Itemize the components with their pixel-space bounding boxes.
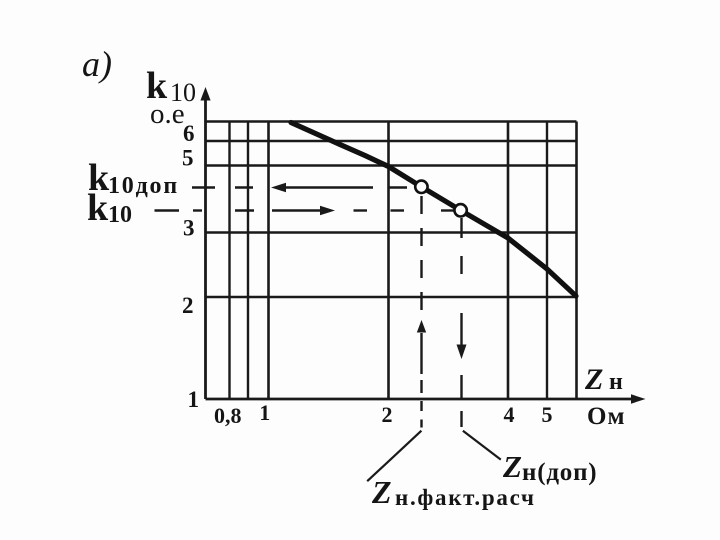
dashed horizontal k10 level y=210.5 [155, 209, 458, 211]
svg-text:о.е: о.е [150, 98, 185, 130]
svg-text:а): а) [82, 44, 112, 84]
curve k10(Zн) [291, 123, 576, 297]
callout leader to Zн(доп) [463, 431, 501, 460]
svg-text:10: 10 [108, 202, 132, 228]
svg-text:3: 3 [183, 216, 195, 241]
svg-text:2: 2 [382, 402, 393, 427]
gridline vertical 1 [267, 122, 270, 400]
svg-text:Ом: Ом [587, 403, 625, 430]
marker circle on curve at k10 [454, 204, 466, 216]
svg-text:1: 1 [259, 400, 270, 425]
svg-text:н(доп): н(доп) [522, 459, 597, 486]
gridline vertical 4 [507, 122, 510, 400]
gridline vertical 0.8 [228, 122, 230, 400]
svg-text:Z: Z [502, 449, 522, 484]
marker circle on curve at k10доп [415, 181, 427, 193]
svg-text:5: 5 [542, 402, 553, 427]
gridline vertical 2 [387, 122, 390, 400]
gridline vertical right border [575, 122, 578, 400]
svg-text:k: k [87, 187, 109, 229]
x-axis arrowhead [631, 394, 646, 403]
svg-text:н: н [609, 369, 623, 395]
svg-text:2: 2 [182, 293, 194, 318]
svg-text:10доп: 10доп [108, 173, 179, 199]
left arrowhead on k10доп line [271, 183, 286, 193]
down arrowhead on Zн(доп) line [457, 345, 467, 360]
svg-text:Z: Z [584, 363, 603, 396]
svg-text:1: 1 [188, 387, 200, 412]
x-axis [206, 398, 635, 401]
svg-text:0,8: 0,8 [214, 403, 242, 428]
svg-text:4: 4 [504, 402, 515, 427]
gridline horizontal 3 [206, 231, 577, 233]
gridline horizontal 6 [206, 140, 577, 142]
y-axis [204, 99, 207, 399]
dashed vertical Zн.факт.расч x=421.5 [420, 196, 422, 428]
callout leader to Zн.факт.расч [367, 431, 421, 482]
dashed horizontal k10доп level y=187.5 [192, 186, 407, 188]
svg-text:6: 6 [183, 121, 195, 146]
svg-text:5: 5 [182, 146, 194, 171]
up arrowhead on Zн.факт.расч line [417, 320, 426, 333]
gridline vertical 0.9 [247, 122, 249, 400]
dashed vertical Zн(доп) x=461.5 [460, 218, 462, 427]
gridline vertical 5 [546, 122, 548, 400]
svg-text:н.факт.расч: н.факт.расч [395, 485, 536, 510]
gridline horizontal top border [206, 120, 577, 122]
gridline horizontal 2 [206, 296, 577, 298]
gridline horizontal 5 [206, 164, 577, 166]
y-axis arrowhead [200, 87, 210, 101]
svg-text:Z: Z [371, 474, 392, 510]
right arrowhead on k10 line [320, 206, 335, 216]
